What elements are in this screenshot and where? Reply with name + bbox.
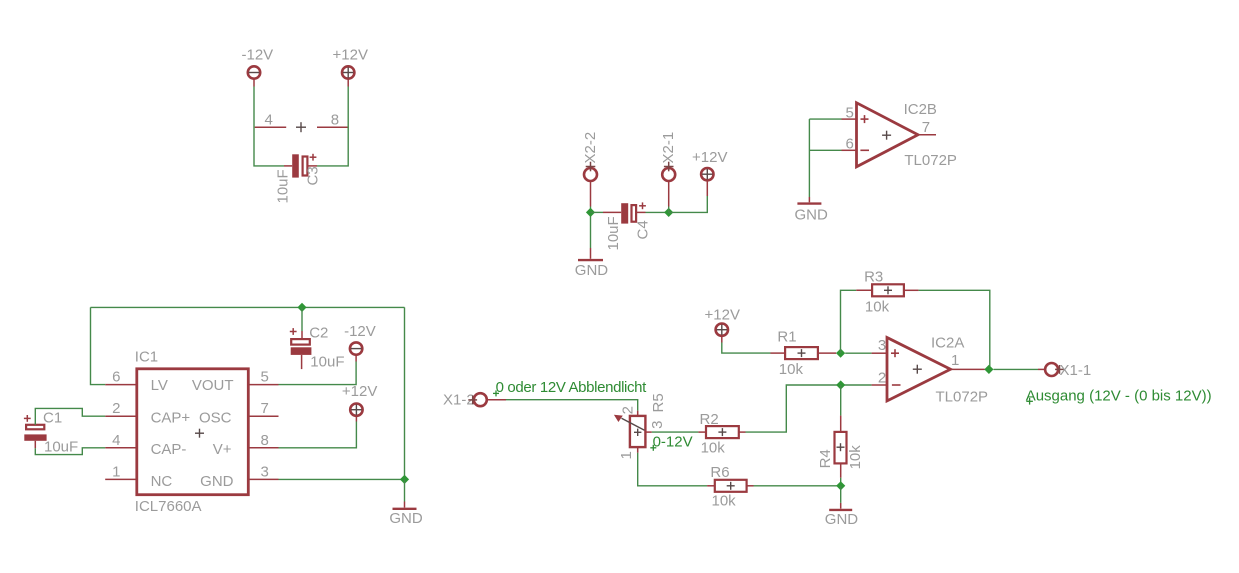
supply -12V (at IC1)	[344, 323, 376, 361]
supply +12V (middle)	[692, 149, 727, 196]
svg-text:X2-1: X2-1	[660, 132, 677, 164]
svg-text:1: 1	[618, 451, 635, 459]
junction pin2 row	[836, 380, 845, 389]
net label 0-12V	[650, 433, 692, 450]
R2 origin cross	[718, 428, 726, 436]
capacitor C3	[284, 154, 317, 178]
wire R5 pin1 down and right	[638, 453, 707, 486]
wire pin3 GND to right rail	[279, 478, 405, 480]
svg-text:GND: GND	[389, 510, 423, 527]
junction GND node	[836, 481, 845, 490]
capacitor C4	[603, 202, 646, 223]
svg-text:C3: C3	[305, 166, 322, 185]
svg-text:IC1: IC1	[135, 349, 158, 366]
wire junction down to GND	[404, 479, 406, 501]
svg-text:R6: R6	[710, 464, 729, 481]
IC1 pin 6	[105, 369, 137, 386]
svg-text:VOUT: VOUT	[192, 377, 234, 394]
resistor R6	[707, 480, 753, 492]
IC2 power gate pin 8	[317, 111, 349, 128]
svg-text:10uF: 10uF	[605, 216, 622, 250]
top rail wire	[91, 306, 405, 308]
IC2A inverting -	[892, 384, 901, 386]
wire IC2B pin5	[809, 118, 841, 120]
svg-text:2: 2	[619, 406, 636, 414]
svg-text:+12V: +12V	[342, 383, 377, 400]
svg-text:2: 2	[878, 369, 886, 386]
svg-text:1: 1	[951, 352, 959, 369]
svg-text:0 oder 12V Abblendlicht: 0 oder 12V Abblendlicht	[496, 379, 648, 396]
IC1 pin 7	[248, 400, 278, 417]
svg-text:4: 4	[265, 111, 273, 128]
svg-text:10uF: 10uF	[310, 354, 344, 371]
op-amp IC2A pin 3 stub	[872, 337, 887, 354]
wire R6 to junction	[754, 485, 841, 487]
IC U1 box ICL7660A	[137, 369, 249, 495]
resistor R1	[771, 347, 837, 359]
wire -12V to C3	[254, 87, 284, 166]
wire C1 top to pin 2	[35, 408, 105, 424]
op-amp IC2B pin 6 stub	[842, 135, 857, 152]
IC2 power gate pin 4	[255, 111, 287, 128]
IC1 origin cross	[195, 429, 204, 438]
svg-text:10uF: 10uF	[44, 439, 78, 456]
ground under IC2B	[795, 197, 829, 224]
op-amp IC2B pin 5 stub	[842, 104, 857, 121]
svg-text:IC2B: IC2B	[904, 101, 937, 118]
svg-text:X1-1: X1-1	[1060, 362, 1092, 379]
svg-text:R4: R4	[817, 449, 834, 468]
svg-text:R3: R3	[864, 269, 883, 286]
wire C1 bottom to pin 4	[35, 448, 105, 455]
svg-text:3: 3	[878, 337, 886, 354]
R3 origin cross	[884, 286, 892, 294]
R5 wiper arrow	[614, 415, 645, 431]
wire IC2B pin6	[809, 149, 841, 151]
junction top rail	[297, 303, 306, 312]
junction right rail	[400, 475, 409, 484]
svg-text:-12V: -12V	[242, 46, 274, 63]
svg-text:8: 8	[331, 111, 339, 128]
IC2 power gate origin cross	[296, 122, 306, 132]
ground under X2-2	[575, 248, 609, 279]
IC1 pin 8	[248, 432, 278, 449]
connector X2-2	[582, 132, 599, 207]
supply +12V (at R1)	[705, 306, 740, 342]
svg-text:V+: V+	[213, 441, 232, 458]
wire junction down to R4	[840, 385, 842, 416]
svg-text:X2-2: X2-2	[582, 132, 599, 164]
svg-text:7: 7	[261, 400, 269, 417]
svg-text:10k: 10k	[701, 439, 726, 456]
svg-text:TL072P: TL072P	[904, 152, 957, 169]
wire down to GND	[808, 119, 810, 197]
svg-text:IC2A: IC2A	[931, 334, 964, 351]
connector X1-1	[1045, 362, 1091, 379]
svg-text:TL072P: TL072P	[936, 388, 989, 405]
wire junction down to GND	[840, 486, 842, 503]
svg-text:CAP+: CAP+	[151, 410, 191, 427]
wire R3 to output rail	[919, 290, 990, 369]
wire junction to C4	[591, 211, 604, 213]
svg-text:3: 3	[649, 421, 666, 429]
svg-text:5: 5	[261, 369, 269, 386]
svg-text:-12V: -12V	[344, 323, 376, 340]
svg-text:0-12V: 0-12V	[653, 433, 693, 450]
IC2A output pin 1	[951, 352, 985, 369]
junction output	[984, 365, 993, 374]
IC1 pin 1	[105, 463, 137, 480]
svg-text:GND: GND	[825, 511, 859, 528]
wire junction to +12V	[669, 196, 708, 212]
connector X1-2	[443, 391, 506, 408]
svg-text:+12V: +12V	[333, 46, 368, 63]
svg-text:Ausgang (12V - (0 bis 12V)): Ausgang (12V - (0 bis 12V))	[1026, 388, 1212, 405]
wire feedback up to R3	[841, 290, 857, 353]
wire X2-2 down to GND	[590, 207, 592, 249]
svg-text:10k: 10k	[865, 298, 890, 315]
wire C3 to +12V	[317, 87, 348, 166]
svg-text:4: 4	[112, 432, 120, 449]
ground under IC1	[389, 502, 423, 528]
svg-text:1: 1	[112, 463, 120, 480]
IC2B origin cross	[882, 131, 891, 140]
net label Ausgang	[1026, 388, 1212, 405]
IC1 pin 5	[248, 369, 278, 386]
IC1 pin 4	[105, 432, 137, 449]
svg-text:3: 3	[261, 463, 269, 480]
IC1 pin labels inside	[151, 377, 234, 490]
connector X2-1	[660, 132, 677, 207]
supply -12V (top left)	[242, 46, 274, 86]
svg-text:6: 6	[112, 369, 120, 386]
svg-text:10uF: 10uF	[275, 169, 292, 203]
svg-text:7: 7	[922, 119, 930, 136]
supply +12V (at IC1)	[342, 383, 377, 422]
svg-text:GND: GND	[200, 473, 234, 490]
IC1 pin 3	[248, 463, 278, 480]
svg-text:ICL7660A: ICL7660A	[135, 498, 202, 515]
svg-text:GND: GND	[795, 207, 829, 224]
svg-text:C1: C1	[43, 409, 62, 426]
svg-text:OSC: OSC	[199, 410, 232, 427]
svg-text:NC: NC	[151, 473, 173, 490]
R5 origin cross	[634, 429, 641, 436]
svg-text:C4: C4	[635, 220, 652, 239]
IC2A noninverting +	[891, 349, 899, 357]
capacitor C2	[290, 328, 312, 369]
R4 origin cross	[837, 443, 845, 451]
junction	[664, 208, 673, 217]
wire +12V to R1	[722, 343, 771, 354]
svg-text:C2: C2	[309, 324, 328, 341]
svg-text:R1: R1	[777, 328, 796, 345]
wire X1-2 to pot R5	[506, 400, 638, 411]
svg-text:CAP-: CAP-	[151, 441, 187, 458]
op-amp IC2A pin 2 stub	[872, 369, 887, 386]
svg-text:8: 8	[261, 432, 269, 449]
ground under R4	[825, 503, 859, 528]
R1 origin cross	[798, 349, 806, 357]
net label 0 oder 12V Abblendlicht	[493, 379, 647, 396]
svg-text:6: 6	[845, 135, 853, 152]
IC2A origin cross	[913, 365, 922, 374]
wire pin5 VOUT to -12V	[279, 362, 357, 385]
right rail wire	[404, 307, 406, 479]
svg-text:10k: 10k	[712, 493, 737, 510]
IC1 pin 2	[105, 400, 137, 417]
wire X2-1 down	[668, 207, 670, 213]
svg-text:+12V: +12V	[705, 306, 740, 323]
wire R5 wiper to R2	[645, 431, 698, 433]
svg-text:R5: R5	[650, 393, 667, 412]
resistor R2	[698, 426, 745, 438]
svg-text:R2: R2	[700, 411, 719, 428]
wire pin8 V+ to +12V	[279, 422, 357, 448]
svg-text:+12V: +12V	[692, 149, 727, 166]
capacitor C1	[24, 415, 47, 448]
wire pin 6 up to top rail	[91, 307, 106, 384]
resistor R3	[856, 284, 918, 296]
R6 origin cross	[727, 482, 735, 490]
op-amp IC2B triangle	[857, 103, 919, 167]
supply +12V (top left)	[333, 46, 368, 86]
wire R4 bottom to junction	[840, 478, 842, 486]
wire C4 to X2-1 junction	[646, 211, 669, 213]
junction	[586, 208, 595, 217]
wire junction down to C2	[301, 307, 303, 331]
svg-text:5: 5	[845, 104, 853, 121]
wire junction to pin 3	[845, 352, 871, 354]
IC2B inverting -	[860, 149, 869, 151]
op-amp IC2A triangle	[887, 338, 951, 401]
junction pin3 row	[836, 349, 845, 358]
svg-text:10k: 10k	[779, 361, 804, 378]
svg-text:2: 2	[112, 400, 120, 417]
wire R2 to pin 2 row	[746, 385, 872, 432]
resistor R4	[835, 416, 847, 478]
svg-text:LV: LV	[151, 377, 168, 394]
IC2B noninverting +	[861, 115, 869, 123]
IC2B output pin 7	[918, 119, 936, 136]
svg-text:GND: GND	[575, 262, 609, 279]
potentiometer R5	[630, 411, 646, 453]
svg-text:10k: 10k	[847, 445, 864, 470]
wire output to X1-1	[994, 368, 1039, 370]
